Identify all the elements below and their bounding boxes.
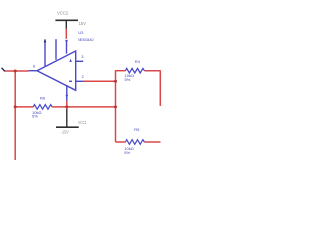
svg-text:VCC1: VCC1 [78,120,87,125]
svg-text:U3: U3 [78,30,84,35]
svg-text:5%: 5% [32,114,38,119]
svg-text:R4: R4 [135,59,141,64]
svg-text:5%: 5% [124,150,130,155]
svg-text:15V: 15V [79,21,87,26]
svg-text:-15V: -15V [61,129,69,134]
svg-text:R5: R5 [134,127,140,132]
svg-text:VCC2: VCC2 [57,11,69,16]
svg-text:3: 3 [81,54,84,59]
svg-text:2: 2 [82,74,85,79]
svg-text:NE5534AD: NE5534AD [78,37,94,42]
svg-text:R6: R6 [40,96,46,101]
svg-text:6: 6 [33,64,36,69]
svg-text:5%: 5% [125,77,131,82]
